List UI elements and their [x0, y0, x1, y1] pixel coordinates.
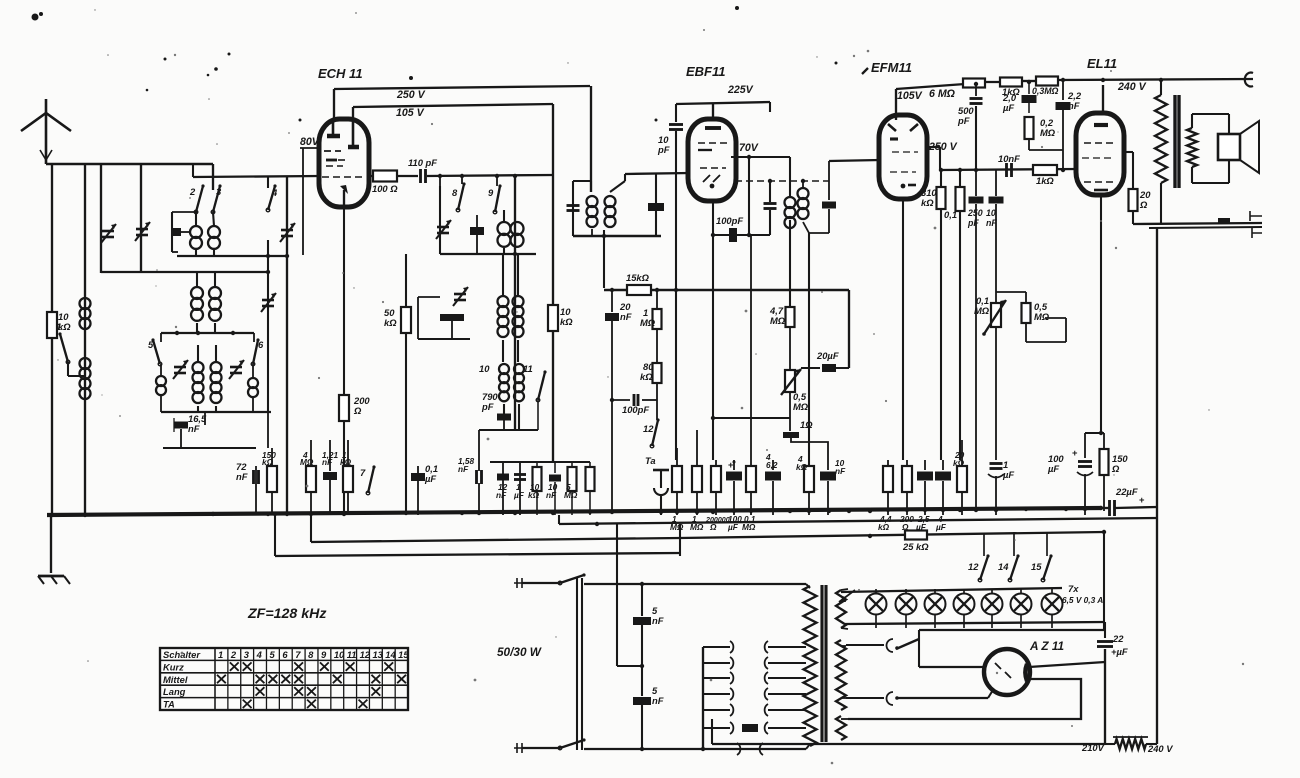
speck 3	[409, 76, 413, 80]
speck 6	[655, 119, 658, 122]
svg-text:20µF: 20µF	[816, 350, 839, 361]
resistor 0,1 efm	[944, 168, 965, 460]
mains switch link	[577, 578, 582, 750]
lamp bottom bus	[845, 622, 1105, 624]
label EFM11	[862, 60, 912, 75]
svg-text:kΩ: kΩ	[560, 316, 573, 327]
transformer primary	[804, 584, 817, 749]
svg-text:nF: nF	[188, 423, 200, 434]
ECH11 internals	[324, 121, 359, 207]
resistor 10k osc	[548, 305, 573, 331]
wire y=418	[711, 416, 790, 420]
mains terminal bottom	[514, 743, 560, 753]
svg-text:210V: 210V	[1081, 742, 1105, 753]
svg-text:105V: 105V	[897, 90, 923, 102]
pot 0,1M efm	[974, 295, 1006, 336]
svg-text:nF: nF	[620, 311, 632, 322]
svg-text:10: 10	[334, 649, 345, 660]
svg-text:Ω: Ω	[1139, 199, 1148, 210]
resistor 200 ohm	[339, 395, 370, 421]
resistor 0,1M row	[742, 235, 756, 532]
svg-text:+: +	[1139, 494, 1145, 505]
svg-text:MΩ: MΩ	[974, 305, 990, 316]
speck 2	[835, 62, 838, 65]
svg-text:kΩ: kΩ	[878, 522, 890, 532]
svg-text:EBF11: EBF11	[686, 64, 726, 79]
svg-text:pF: pF	[657, 144, 670, 155]
svg-text:TA: TA	[163, 699, 175, 710]
resistor 1k series	[1033, 165, 1057, 186]
svg-text:4: 4	[256, 649, 263, 660]
resistor 0,3M top3	[1032, 77, 1059, 97]
svg-text:MΩ: MΩ	[742, 522, 756, 532]
wire EL11 bottom	[1100, 195, 1102, 433]
trimmer C6	[229, 360, 244, 379]
svg-text:nF: nF	[652, 695, 664, 706]
tube AZ11	[984, 649, 1030, 695]
wire vert x=604 down	[603, 236, 605, 288]
label EBF11	[686, 64, 726, 79]
label 70V	[739, 142, 759, 154]
wire vert x=515	[514, 176, 516, 430]
svg-text:MΩ: MΩ	[1034, 311, 1050, 322]
selector taps right	[765, 641, 806, 734]
label 105V 6Mohm	[897, 88, 956, 102]
svg-text:14: 14	[998, 561, 1009, 572]
svg-text:kΩ: kΩ	[640, 371, 653, 382]
svg-text:6: 6	[258, 339, 264, 350]
speaker	[1218, 121, 1259, 173]
wire x=1104 down	[1103, 532, 1105, 630]
svg-text:3: 3	[216, 186, 222, 197]
label 210V	[1081, 742, 1105, 753]
resistor 150ohm	[1100, 433, 1129, 511]
wire vert x=268 low	[267, 258, 269, 412]
label 240V fuse	[1147, 743, 1173, 754]
cap 500pF	[957, 82, 983, 170]
trimmer C-osc2	[453, 287, 468, 306]
svg-text:250 V: 250 V	[928, 141, 958, 153]
svg-text:nF: nF	[458, 464, 469, 474]
svg-text:nF: nF	[835, 466, 846, 476]
switch 12 ta	[643, 418, 660, 447]
svg-text:4: 4	[765, 452, 771, 462]
svg-text:6: 6	[282, 649, 288, 660]
svg-text:12: 12	[968, 561, 979, 572]
IF1 sec top lead	[610, 173, 690, 192]
svg-text:15: 15	[398, 649, 409, 660]
wire EFM anode	[926, 147, 940, 170]
speck 5	[32, 12, 44, 21]
svg-text:22µF: 22µF	[1115, 486, 1138, 497]
coil L5	[156, 364, 166, 412]
svg-text:Mittel: Mittel	[163, 674, 188, 685]
svg-text:7: 7	[360, 467, 366, 478]
selector taps left	[703, 641, 733, 734]
wire vert x=268 mid	[267, 240, 269, 258]
cap 6,2nF	[765, 452, 781, 515]
svg-text:MΩ: MΩ	[793, 401, 809, 412]
cap 5nF a	[633, 584, 664, 666]
wire anode y=176	[368, 175, 418, 177]
tube EFM11	[879, 115, 927, 199]
svg-text:MΩ: MΩ	[1040, 127, 1056, 138]
svg-text:ZF=128 kHz: ZF=128 kHz	[247, 606, 326, 622]
wire speaker bottom	[1133, 211, 1262, 224]
wire y=412	[161, 411, 271, 413]
cap 1ohm bar	[783, 418, 828, 468]
resistor 6M top	[963, 79, 985, 88]
cap 10nF row	[546, 462, 561, 515]
svg-text:Ω: Ω	[353, 405, 362, 416]
svg-text:25 kΩ: 25 kΩ	[902, 541, 929, 552]
svg-text:kΩ: kΩ	[921, 197, 934, 208]
transformer tap fork 1	[846, 639, 919, 652]
transformer core	[822, 585, 826, 742]
output transformer primary	[1155, 80, 1167, 224]
wire AZ11 cathode	[1029, 662, 1105, 667]
svg-text:9: 9	[321, 649, 327, 660]
cap 16,5nF	[174, 413, 207, 434]
svg-text:1: 1	[56, 321, 61, 332]
svg-text:Schalter: Schalter	[163, 649, 201, 660]
resistor 25k	[902, 531, 929, 553]
svg-text:1Ω: 1Ω	[800, 419, 813, 430]
label 50/30W	[497, 645, 542, 659]
fuse resistor bottom	[1105, 519, 1157, 749]
wire vert x=1157	[1156, 228, 1158, 519]
svg-text:4: 4	[271, 187, 278, 198]
cap 10nF 2	[986, 170, 1004, 430]
switch 3	[211, 184, 222, 213]
wire EBF anode	[731, 155, 790, 235]
resistor 200000	[705, 460, 730, 532]
svg-text:MΩ: MΩ	[300, 457, 314, 467]
cap 10nF b	[820, 458, 846, 515]
cap 1,21nF	[322, 440, 339, 515]
switch 7	[360, 465, 376, 494]
volume pot	[781, 327, 809, 418]
wire vert x=440 low	[439, 186, 441, 254]
wire y=339	[418, 297, 470, 339]
transformer sec 1	[836, 589, 848, 629]
cap 100uF row	[726, 459, 742, 532]
wire vert x=287	[286, 176, 288, 515]
label 250V EFM	[928, 141, 958, 153]
cap IF2 left	[764, 181, 777, 235]
resistor 5M row	[564, 462, 578, 515]
wire 80V stub	[300, 148, 320, 255]
wire EBF cathode	[712, 200, 714, 460]
svg-text:nF: nF	[546, 490, 557, 500]
svg-text:12: 12	[360, 649, 371, 660]
mains terminal top	[514, 578, 560, 588]
wire y=273	[101, 270, 270, 274]
wire vert x=101	[100, 164, 102, 273]
svg-text:MΩ: MΩ	[770, 315, 786, 326]
wire vert x=440	[439, 176, 441, 186]
svg-text:240 V: 240 V	[1147, 743, 1173, 754]
EBF11 internals	[698, 128, 728, 188]
wire vert x=85 coil branch	[84, 164, 86, 515]
cap 12nF	[496, 462, 509, 515]
cap 1uF	[513, 462, 526, 515]
trimmer C7	[261, 293, 276, 312]
label EL11	[1087, 56, 1117, 71]
table band switch	[160, 648, 409, 710]
coil pair C	[193, 345, 222, 412]
tube ECH11	[319, 119, 369, 207]
IF1 coils	[587, 192, 616, 237]
cap 10nF series	[998, 153, 1020, 177]
wire AZ11 anode bottom	[897, 690, 993, 698]
svg-text:0,3MΩ: 0,3MΩ	[1032, 86, 1059, 96]
wire 105V line	[353, 104, 553, 120]
wire y=333	[161, 331, 254, 335]
switch 4	[266, 176, 278, 212]
svg-text:14: 14	[385, 649, 396, 660]
cap 110pF	[408, 157, 437, 183]
switch 11	[536, 370, 546, 430]
svg-text:pF: pF	[481, 401, 494, 412]
bottom line right	[712, 719, 1105, 744]
cap 790pF	[481, 391, 511, 421]
svg-text:8: 8	[452, 187, 458, 198]
wire left vert x=52	[51, 164, 53, 515]
cap osc solid	[470, 215, 484, 254]
wire AZ11 anode top	[919, 630, 1105, 667]
cap 100uF main	[1047, 433, 1093, 515]
resistor 200ohm	[899, 460, 914, 532]
svg-text:kΩ: kΩ	[953, 458, 965, 468]
wire EFM bottom	[902, 199, 904, 460]
cap 5nF b	[633, 664, 664, 748]
svg-text:Ta: Ta	[645, 455, 656, 466]
mains switch top	[558, 573, 806, 586]
cap IF2 right	[822, 181, 836, 233]
svg-text:80V: 80V	[300, 136, 320, 148]
resistor 10k row	[528, 462, 542, 515]
svg-text:13: 13	[372, 649, 383, 660]
wire vert x=553	[552, 104, 554, 462]
resistor 1M a	[670, 448, 684, 532]
speck 4	[146, 53, 302, 122]
svg-text:240 V: 240 V	[1117, 81, 1147, 93]
wire vert x=617 down	[617, 524, 642, 666]
IF2 coils	[785, 157, 830, 466]
label lamps	[1062, 583, 1103, 605]
resistor 4,7M	[769, 220, 795, 327]
connector C top right	[1245, 73, 1253, 87]
switch 5	[148, 333, 162, 366]
switch 6	[251, 333, 264, 366]
svg-text:EL11: EL11	[1087, 56, 1117, 71]
trimmer C4	[280, 223, 295, 242]
wire y=258	[177, 250, 289, 258]
resistor 15k	[604, 272, 849, 295]
svg-text:pF: pF	[967, 218, 979, 228]
svg-text:nF: nF	[986, 218, 997, 228]
svg-text:15: 15	[1031, 561, 1042, 572]
svg-text:250: 250	[967, 208, 983, 218]
svg-text:12: 12	[643, 423, 654, 434]
wire EFM top lead	[896, 84, 965, 120]
svg-text:50/30 W: 50/30 W	[497, 645, 542, 659]
svg-text:ECH 11: ECH 11	[318, 66, 363, 81]
label ECH11	[318, 66, 363, 81]
cap 72nF	[236, 461, 259, 515]
selector left column	[702, 647, 704, 749]
coil osc pair A	[498, 210, 524, 254]
svg-text:5: 5	[148, 339, 154, 350]
wire vert x=350	[343, 206, 345, 512]
svg-text:6 MΩ: 6 MΩ	[929, 88, 956, 100]
svg-text:kΩ: kΩ	[528, 490, 540, 500]
resistor 1k top2	[1000, 78, 1022, 98]
svg-text:0,1: 0,1	[944, 209, 957, 220]
label ZF	[247, 606, 326, 622]
switch 8	[452, 176, 466, 212]
trimmer C-ant1	[101, 224, 116, 243]
switch 1	[56, 321, 85, 376]
trimmer C-osc1	[436, 220, 451, 239]
wire IF1 bottom	[573, 234, 661, 238]
resistor 0,5M efm	[996, 292, 1066, 342]
wire y=448 left	[163, 412, 268, 448]
svg-text:A Z 11: A Z 11	[1029, 639, 1064, 653]
selector plug bar	[742, 724, 758, 732]
antenna	[21, 99, 71, 164]
wire grid y=176	[193, 164, 366, 177]
cap 100pF	[711, 215, 770, 242]
cap 20nF	[605, 288, 632, 511]
resistor 10k ant	[47, 311, 71, 338]
svg-text:2: 2	[189, 186, 196, 197]
svg-text:+: +	[1072, 447, 1078, 458]
resistor 1M mid	[640, 290, 662, 329]
svg-text:µF: µF	[1047, 463, 1059, 474]
svg-text:100 Ω: 100 Ω	[372, 183, 398, 194]
black bar osc	[440, 314, 464, 339]
svg-text:nF: nF	[322, 457, 333, 467]
svg-text:10nF: 10nF	[998, 153, 1020, 164]
dash diode line	[735, 179, 829, 183]
cap 2,5uF	[915, 460, 933, 532]
resistor 100 ohm	[372, 171, 398, 195]
wire EL11 top	[1102, 85, 1104, 113]
svg-text:22: 22	[1112, 633, 1124, 644]
wire vert x=591 top	[590, 86, 592, 192]
label AZ11	[1029, 639, 1064, 653]
transformer sec 2	[836, 640, 846, 710]
cap IF1 grid	[648, 174, 664, 236]
ground drop	[50, 515, 52, 573]
label 105V	[396, 107, 425, 119]
resistor 310k	[921, 168, 946, 460]
cap 22uF bus	[1101, 486, 1157, 516]
speck 1	[735, 6, 739, 10]
cap 250pF	[967, 170, 984, 511]
coil L6	[248, 364, 258, 412]
wire 225V	[676, 102, 770, 122]
top rail	[984, 78, 1253, 82]
svg-text:nF: nF	[1068, 100, 1080, 111]
svg-text:nF: nF	[496, 490, 507, 500]
cap 2,2nF	[1056, 80, 1082, 170]
resistor 0,2M	[1025, 117, 1064, 150]
resistor 20k	[953, 440, 967, 515]
svg-text:Ω: Ω	[1111, 463, 1120, 474]
svg-text:µF: µF	[513, 490, 525, 500]
wire AZ11 filament loop	[848, 679, 1081, 719]
phono Ta	[645, 455, 669, 515]
lamp switch 15	[1031, 532, 1053, 582]
svg-text:2: 2	[230, 649, 237, 660]
bus line C y=556	[275, 515, 680, 556]
svg-text:8: 8	[308, 649, 314, 660]
cap 2uF solid	[1002, 80, 1037, 113]
EFM11 internals	[888, 124, 918, 188]
ground symbol	[38, 576, 70, 584]
svg-text:kΩ: kΩ	[384, 317, 397, 328]
EL11 internals	[1082, 125, 1116, 190]
svg-text:µF: µF	[935, 522, 947, 532]
svg-text:15kΩ: 15kΩ	[626, 272, 650, 283]
svg-text:10: 10	[479, 363, 490, 374]
svg-text:kΩ: kΩ	[340, 457, 352, 467]
wire EFM grid	[829, 160, 880, 181]
svg-text:9: 9	[488, 187, 494, 198]
svg-text:100pF: 100pF	[622, 404, 649, 415]
svg-text:70V: 70V	[739, 142, 759, 154]
lamp feed line y=537	[680, 530, 1106, 538]
wire vert x=141	[140, 164, 142, 273]
dial lamps 7x	[866, 589, 1063, 628]
tube EL11	[1076, 113, 1124, 195]
bus line B y=542	[311, 515, 680, 556]
svg-text:MΩ: MΩ	[564, 490, 578, 500]
svg-text:kΩ: kΩ	[262, 457, 274, 467]
svg-text:105 V: 105 V	[396, 107, 425, 119]
wire osc bottom	[479, 420, 538, 466]
svg-text:EFM11: EFM11	[871, 60, 912, 75]
resistor 4,4k	[878, 460, 893, 532]
svg-text:Kurz: Kurz	[163, 661, 184, 672]
resistor 1k row	[340, 440, 353, 515]
label 80V	[300, 136, 320, 148]
wire y=254 osc	[440, 210, 536, 256]
svg-text:µF: µF	[727, 522, 739, 532]
label 225V	[727, 84, 754, 96]
trimmer C5	[173, 360, 188, 379]
wire row top y=462	[490, 462, 595, 515]
output transformer secondary	[1187, 114, 1229, 183]
mains switch bottom	[558, 738, 806, 755]
lamp rheostat	[839, 590, 855, 602]
lamp switch 12	[968, 533, 990, 582]
svg-text:100pF: 100pF	[716, 215, 743, 226]
lamp top bus	[841, 588, 1062, 592]
wire cap150 bracket	[1085, 431, 1104, 435]
cap 100pF grid	[610, 383, 657, 420]
svg-text:3: 3	[244, 649, 250, 660]
wire y=228 right	[1149, 227, 1262, 238]
wire grid line EL11	[940, 168, 1078, 172]
svg-text:µF: µF	[424, 473, 436, 484]
svg-text:7: 7	[295, 649, 301, 660]
svg-text:250 V: 250 V	[396, 89, 426, 101]
svg-text:6,5 V 0,3 A: 6,5 V 0,3 A	[1062, 595, 1103, 605]
